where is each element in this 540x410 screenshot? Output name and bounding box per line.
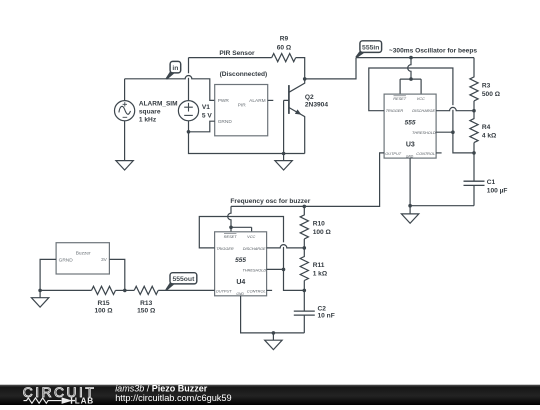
- wire R4 bottom: [473, 143, 475, 153]
- svg-text:CONTROL: CONTROL: [247, 290, 266, 294]
- svg-text:100 µF: 100 µF: [487, 187, 508, 194]
- svg-text:THRESHOLD: THRESHOLD: [412, 131, 436, 135]
- resistor R3: [470, 58, 478, 101]
- ground below Q2: [275, 161, 292, 170]
- ground below U4: [265, 340, 282, 349]
- wire U3 DISCHARGE to R3/R4 node (with hop): [436, 107, 474, 110]
- wire buzzer GRND to ground node: [40, 259, 56, 290]
- wire U4 TRIGGER to THRESHOLD loop: [199, 217, 304, 291]
- svg-text:RESET: RESET: [224, 235, 237, 239]
- wire C1 bottom to U3 GND rail: [410, 205, 474, 207]
- svg-text:C1: C1: [487, 179, 496, 186]
- wire U4 OUTPUT to R13: [158, 289, 214, 291]
- buzzer module BZ1 box: [56, 243, 109, 274]
- junction R4 / C1 / threshold wire: [472, 151, 476, 155]
- resistor R9: [272, 54, 296, 62]
- wire U3 TRIGGER to THRESHOLD loop: [369, 68, 474, 153]
- capacitor C2: [294, 290, 315, 333]
- pin stub U4 THRESHOLD: [267, 268, 284, 270]
- svg-text:GRND: GRND: [218, 119, 233, 125]
- svg-text:Q2: Q2: [305, 94, 314, 101]
- wire to PIR GRND pin: [189, 121, 215, 132]
- junction rail / R10: [303, 205, 307, 209]
- U4 pin label RESET (active low): [224, 234, 237, 239]
- VCC rail of beep oscillator: [356, 57, 474, 59]
- wire Q2 base to ground rail: [284, 100, 289, 153]
- svg-text:TRIGGER: TRIGGER: [386, 109, 404, 113]
- svg-text:RESET: RESET: [393, 97, 406, 101]
- junction trigger loop / U4 THRESHOLD: [282, 268, 286, 272]
- svg-text:C2: C2: [318, 306, 327, 313]
- PIR sensor module box: [215, 85, 268, 136]
- pin stub U3 THRESHOLD: [436, 131, 453, 133]
- CircuitLab logo diode symbol: [62, 397, 75, 403]
- svg-text:R13: R13: [140, 300, 152, 307]
- junction buzzer ground / R15: [38, 289, 42, 293]
- ground rail under V1 and Q2: [189, 132, 305, 154]
- capacitor C1: [464, 153, 485, 206]
- wire R15 right lead: [116, 289, 125, 291]
- junction U3 GND / ground: [408, 204, 412, 208]
- net flag in: [166, 61, 181, 79]
- svg-text:GRND: GRND: [59, 257, 74, 263]
- net flag 555out: [165, 273, 197, 291]
- wire rail down to U4 tee (hops over trigger wire): [228, 206, 231, 227]
- transistor Q2 (NPN 2N3904): [289, 79, 305, 154]
- stub to ground below U3: [409, 206, 411, 214]
- svg-text:555in: 555in: [362, 45, 379, 52]
- wire V1 minus down: [188, 121, 190, 132]
- svg-text:Buzzer: Buzzer: [76, 250, 91, 256]
- wire R11 bottom: [303, 281, 305, 291]
- svg-text:R15: R15: [97, 300, 109, 307]
- junction U4 GND rail / ground: [272, 331, 276, 335]
- svg-text:R9: R9: [280, 36, 289, 43]
- wire U3 GND pin down: [409, 158, 411, 206]
- svg-text:555out: 555out: [172, 276, 195, 283]
- pin stub U4 CONTROL (unconnected): [267, 289, 273, 291]
- svg-text:VCC: VCC: [247, 235, 255, 239]
- ground below buzzer: [31, 298, 48, 307]
- svg-text:3V: 3V: [101, 257, 108, 263]
- wire tee to U4 RESET and VCC pins: [231, 227, 252, 232]
- wire collector node to 555in anchor: [305, 58, 356, 79]
- svg-text:PWR: PWR: [218, 98, 230, 104]
- svg-text:PIR Sensor: PIR Sensor: [219, 50, 255, 57]
- svg-text:100 Ω: 100 Ω: [313, 229, 332, 236]
- junction V1 minus / PIR GRND / ground rail: [187, 130, 191, 134]
- svg-text:(Disconnected): (Disconnected): [220, 71, 268, 78]
- svg-text:500 Ω: 500 Ω: [482, 91, 501, 98]
- svg-text:R4: R4: [482, 124, 491, 131]
- op-amp-style IC box 555 timer U3: [384, 94, 436, 158]
- svg-text:CONTROL: CONTROL: [416, 152, 435, 156]
- svg-text:U4: U4: [236, 279, 245, 286]
- wire ALARM_SIM top to node in row: [124, 79, 126, 101]
- svg-text:R11: R11: [313, 262, 325, 269]
- svg-text:TRIGGER: TRIGGER: [216, 247, 234, 251]
- wire U4 DISCHARGE to R10/R11 node (with hop): [267, 245, 305, 248]
- svg-text:4 kΩ: 4 kΩ: [482, 132, 497, 139]
- stub to ground below buzzer: [39, 290, 41, 297]
- op-amp-style IC box 555 timer U4: [215, 232, 267, 296]
- wire tee to U3 RESET and VCC pins: [400, 79, 421, 94]
- resistor R13: [134, 286, 158, 294]
- svg-text:10 nF: 10 nF: [318, 313, 335, 320]
- svg-text:GND: GND: [406, 154, 414, 158]
- junction R10 / R11 / U4 DISCHARGE: [303, 246, 307, 250]
- svg-text:LAB: LAB: [75, 396, 94, 405]
- junction U4 RESET-VCC tee: [229, 226, 233, 230]
- junction R11 / C2 / U4 threshold wire: [303, 289, 307, 293]
- junction base wire / ground rail: [282, 152, 286, 156]
- svg-text:GND: GND: [236, 292, 244, 296]
- wire R9 to collector node: [296, 58, 305, 79]
- svg-text:http://circuitlab.com/c6guk59: http://circuitlab.com/c6guk59: [115, 393, 231, 403]
- resistor R11: [300, 248, 308, 281]
- svg-text:PIR: PIR: [238, 103, 247, 109]
- svg-text:2N3904: 2N3904: [305, 101, 328, 108]
- U3 pin label RESET (active low): [393, 96, 406, 101]
- svg-text:150 Ω: 150 Ω: [137, 307, 156, 314]
- svg-text:60 Ω: 60 Ω: [277, 45, 292, 52]
- wire U3 OUTPUT down to buzzer oscillator rail: [231, 153, 384, 207]
- voltage source V1 5 V: [178, 101, 198, 121]
- svg-text:DISCHARGE: DISCHARGE: [412, 109, 435, 113]
- svg-text:1 kΩ: 1 kΩ: [313, 270, 328, 277]
- net flag 555in: [355, 41, 381, 58]
- svg-text:555: 555: [235, 257, 246, 264]
- svg-text:OUTPUT: OUTPUT: [385, 152, 401, 156]
- svg-text:square: square: [139, 109, 161, 116]
- svg-text:ALARM_SIM: ALARM_SIM: [139, 100, 178, 107]
- svg-text:~300ms Oscillator for beeps: ~300ms Oscillator for beeps: [389, 47, 477, 54]
- junction rail / U3 supply drop: [409, 56, 413, 60]
- stub to ground below Q2: [283, 154, 285, 161]
- junction R15 / R13 / buzzer 3V: [123, 289, 127, 293]
- wire R13 to junction: [125, 289, 134, 291]
- junction trigger loop / U3 THRESHOLD: [451, 130, 455, 134]
- svg-text:DISCHARGE: DISCHARGE: [243, 247, 266, 251]
- resistor R10: [300, 206, 308, 239]
- ground below U3: [401, 214, 418, 223]
- junction U3 RESET-VCC tee: [409, 77, 413, 81]
- wire ALARM_SIM bottom to ground: [124, 121, 126, 161]
- resistor R4: [470, 111, 478, 143]
- svg-text:5 V: 5 V: [202, 112, 212, 119]
- svg-text:Frequency osc for buzzer: Frequency osc for buzzer: [230, 198, 310, 205]
- wire rail to U3 RESET-VCC tee (hops over trigger wire): [408, 58, 411, 80]
- pin stub U3 CONTROL (unconnected): [436, 152, 442, 154]
- svg-text:555: 555: [405, 120, 416, 127]
- wire R15 to buzzer ground column: [40, 289, 91, 291]
- svg-text:1 kHz: 1 kHz: [139, 117, 157, 124]
- svg-text:100 Ω: 100 Ω: [94, 307, 113, 314]
- junction R9 / Q2 collector / 555in node: [303, 77, 307, 81]
- wire R3 bottom: [473, 101, 475, 111]
- wire node in to PIR PWR pin (hops over V1 wire): [125, 75, 215, 100]
- svg-text:VCC: VCC: [417, 97, 425, 101]
- svg-text:U3: U3: [406, 141, 415, 148]
- svg-text:in: in: [172, 65, 178, 72]
- ground below ALARM_SIM: [116, 161, 133, 170]
- wire buzzer 3V to R15/R13 junction: [109, 259, 124, 290]
- CircuitLab logo resistor zigzag: [24, 398, 62, 403]
- wire R10 bottom: [303, 239, 305, 248]
- wire V1 plus to top rail: [188, 58, 190, 101]
- svg-text:THRESHOLD: THRESHOLD: [242, 269, 266, 273]
- svg-text:ALARM: ALARM: [249, 98, 266, 104]
- junction R3 / R4 / U3 DISCHARGE: [472, 109, 476, 113]
- stub to ground below U4: [272, 333, 274, 340]
- wire top rail to R9: [189, 57, 272, 59]
- svg-text:OUTPUT: OUTPUT: [216, 290, 232, 294]
- svg-text:R10: R10: [313, 220, 325, 227]
- voltage source V2 ALARM_SIM (square wave source): [115, 101, 135, 121]
- svg-text:R3: R3: [482, 82, 491, 89]
- wire U4 GND rail to C2 bottom: [241, 296, 305, 333]
- svg-text:V1: V1: [202, 104, 210, 111]
- pin stub PIR ALARM (unconnected): [268, 99, 274, 101]
- resistor R15: [92, 286, 116, 294]
